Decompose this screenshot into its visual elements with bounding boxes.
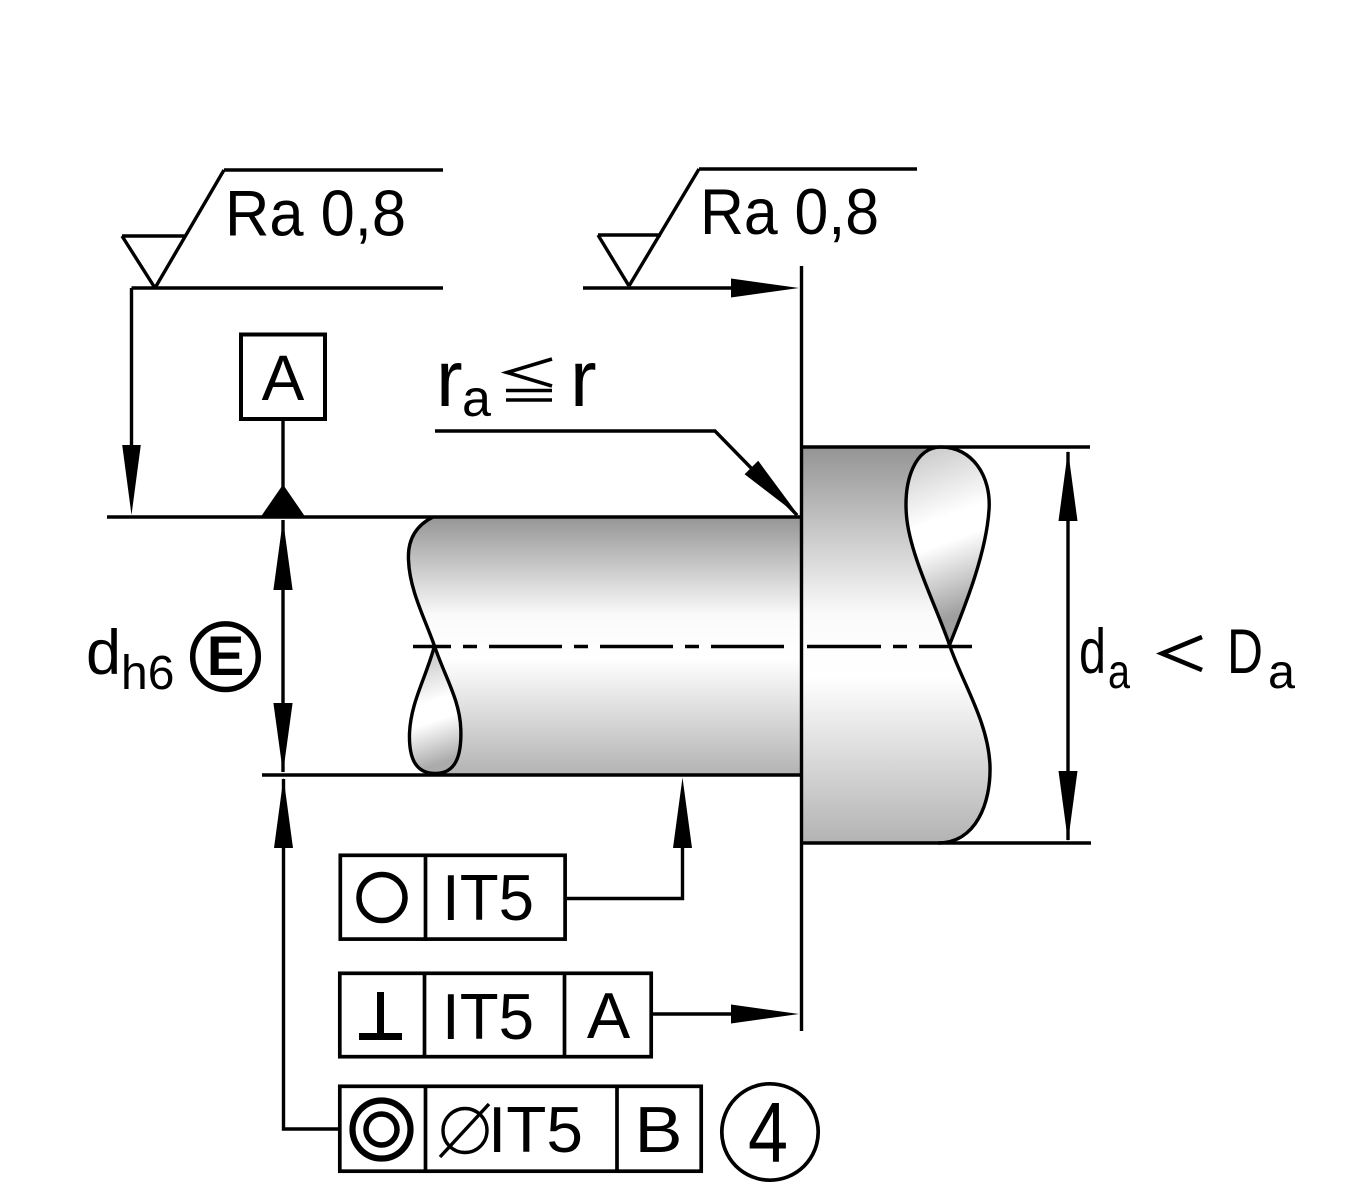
circularity symbol [359,875,405,921]
shoulder break teardrop [906,447,989,645]
svg-text:B: B [635,1093,683,1166]
perpendicularity leader [653,1012,737,1015]
datum A box [241,335,325,420]
d dim arrow up [273,520,292,591]
svg-text:r: r [436,334,463,423]
svg-text:A: A [262,342,305,414]
right dim arrow up [1059,451,1078,522]
svg-text:IT5: IT5 [488,1093,583,1166]
svg-text:IT5: IT5 [442,861,534,934]
perpendicularity frame [340,973,651,1056]
circularity leader [567,845,683,899]
perpendicularity symbol [359,992,402,1037]
right dimension line [1066,452,1069,840]
lower leader to concentricity frame [284,779,339,1129]
circularity leader arrow [673,778,692,849]
leader arrow right [731,279,799,298]
perpendicularity arrow [731,1005,799,1024]
svg-text:a: a [1268,646,1295,699]
shoulder lower break curve [938,645,990,843]
datum triangle [261,485,305,517]
right dim arrow down [1059,771,1078,842]
seat surface line [107,515,801,518]
d dimension line [281,520,284,772]
surface finish symbol right [598,169,917,286]
shoulder body [801,447,990,843]
svg-text:a: a [1108,646,1130,699]
r_a leader [435,431,797,515]
surface symbol left baseline [132,288,444,448]
r_a arrow [745,461,799,516]
d dim arrow down [273,703,292,773]
shoulder bottom line [801,841,1091,844]
shoulder face line [800,266,803,1031]
shaft break teardrop [409,646,460,774]
svg-text:d: d [1079,617,1106,687]
concentricity symbol [353,1101,411,1159]
shaft bottom line [262,773,801,776]
svg-text:h6: h6 [121,647,174,700]
svg-text:D: D [1227,617,1263,687]
centerline [413,645,784,648]
lower leader arrow up [274,778,293,849]
svg-text:IT5: IT5 [442,980,534,1053]
less-or-equal symbol [506,359,552,400]
circularity frame [340,855,565,939]
surface finish symbol left [122,170,443,288]
concentricity frame [340,1086,701,1171]
shaft body [408,517,801,775]
svg-text:Ra 0,8: Ra 0,8 [700,175,879,248]
svg-text:Ra 0,8: Ra 0,8 [225,177,406,250]
svg-text:4: 4 [748,1086,788,1181]
envelope symbol E [193,624,259,690]
surface symbol right baseline [583,286,737,289]
svg-text:d: d [86,618,121,688]
shaft upper break curve [408,517,434,646]
diameter symbol [443,1109,487,1153]
leader arrow down [122,445,141,515]
svg-text:E: E [207,624,244,687]
svg-text:A: A [587,979,631,1052]
svg-text:a: a [462,370,491,428]
shoulder top line [801,445,1090,448]
datum stem [281,421,284,489]
item number circle 4 [722,1084,818,1180]
svg-text:r: r [570,334,597,423]
